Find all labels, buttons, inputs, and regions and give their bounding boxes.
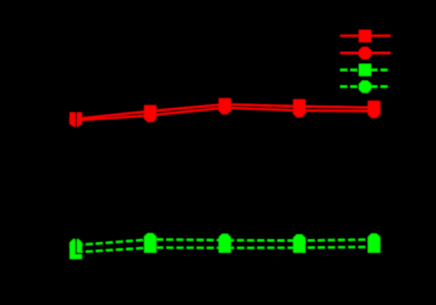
red circle marker 4 [293,105,305,117]
red square marker 2 [144,105,156,117]
black bottom axis spine drawn over data [75,253,380,255]
green circle-series dashed line [76,239,374,245]
green square marker 5 [368,241,380,253]
red circle marker 5 [368,106,380,118]
red square marker 5 [368,101,380,113]
red square marker 3 [219,98,231,110]
legend row 1: red square marker [359,30,371,42]
green circle marker 1 [70,239,82,251]
red circle marker 3 [219,102,231,114]
legend row 4: green circle marker [359,81,371,93]
legend row 3: green square marker [359,64,371,76]
red circle-series line [76,108,374,121]
green circle marker 4 [293,235,305,247]
red square marker 4 [293,99,305,111]
red circle marker 2 [144,110,156,122]
green square-series dashed line [76,247,374,252]
green square marker 3 [219,242,231,254]
red square-series line [76,104,374,119]
legend row 4: green dashed line [340,85,390,87]
legend row 1: red solid line [340,35,390,37]
red circle marker 1 [70,114,82,126]
legend row 2: red solid line [340,52,390,54]
green circle marker 3 [219,234,231,246]
black left axis spine drawn over data [75,30,77,254]
legend row 3: green dashed line [340,69,390,71]
green square marker 4 [293,242,305,254]
green circle marker 2 [144,233,156,245]
green square marker 2 [144,242,156,254]
green circle marker 5 [368,234,380,246]
green square marker 1 [70,247,82,259]
legend row 2: red circle marker [359,47,371,59]
red square marker 1 [70,112,82,124]
